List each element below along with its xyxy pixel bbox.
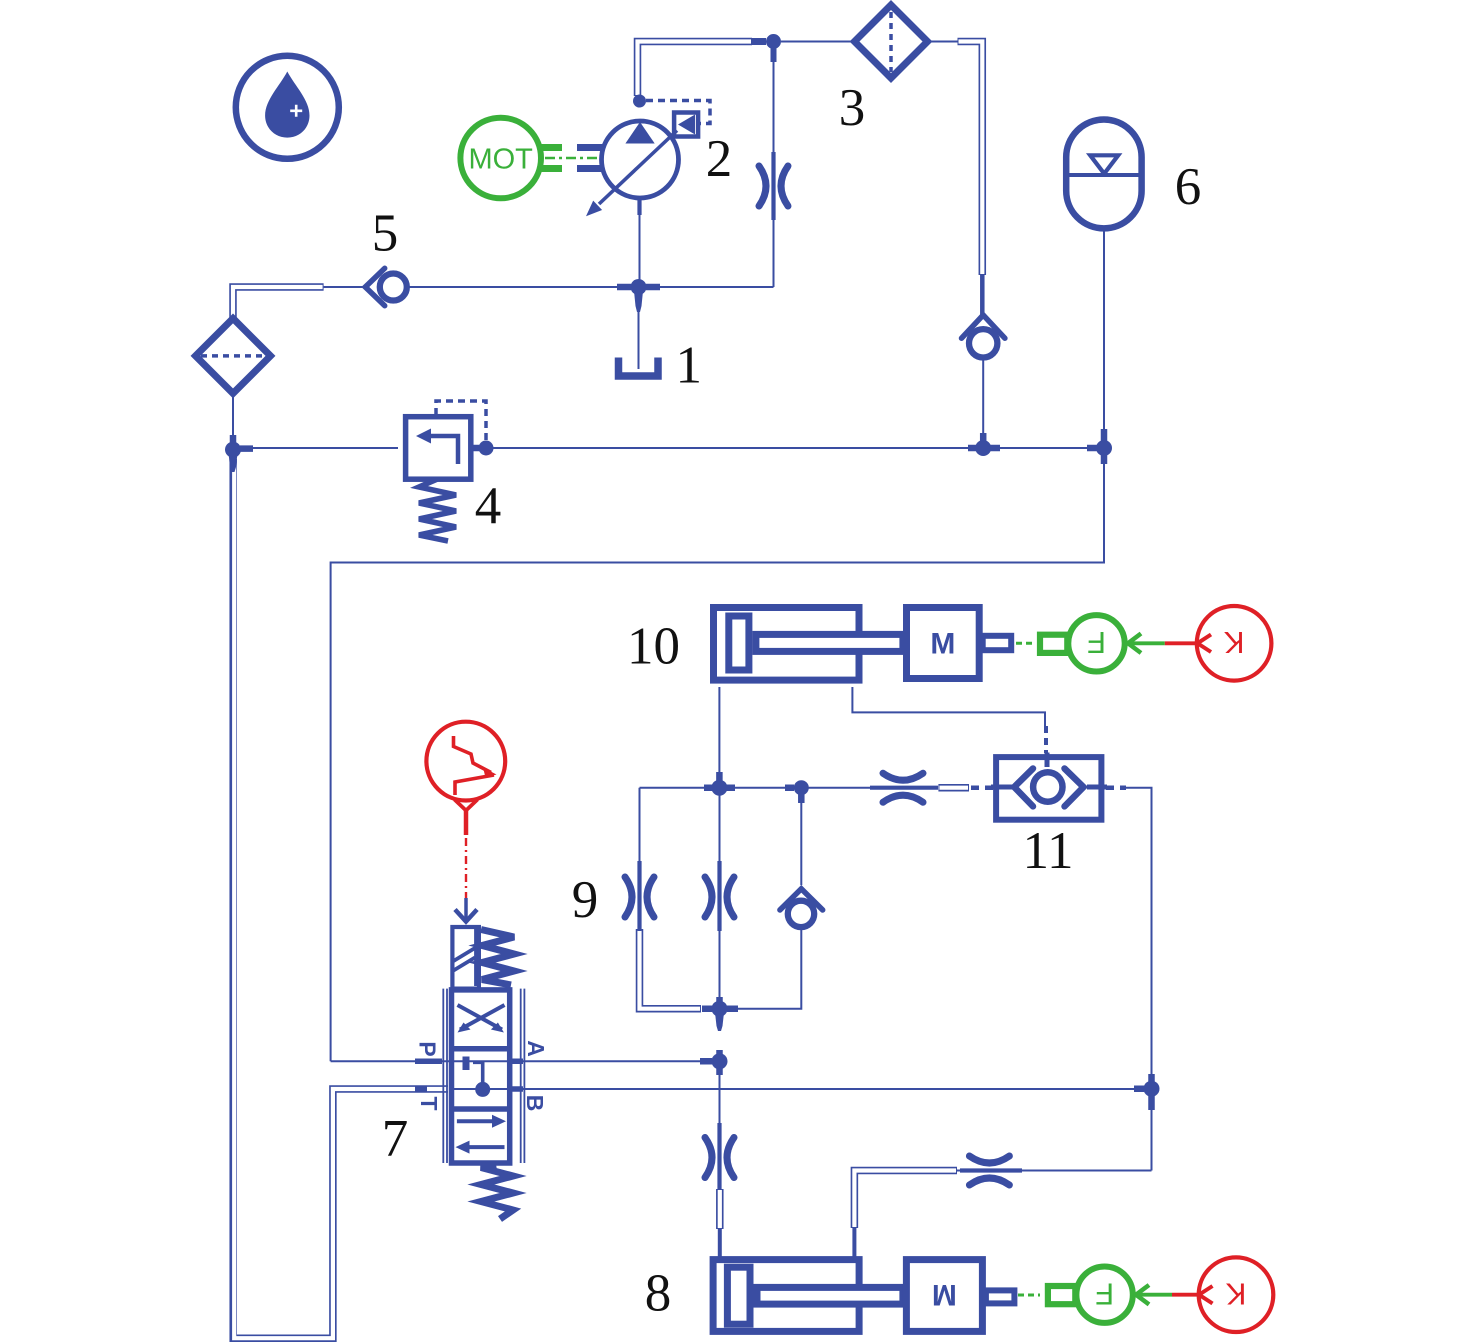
wire nodeX horizontal branch [640,787,802,789]
signal source K8 [1172,1257,1273,1332]
cell2 blocked port and drain [463,1057,470,1071]
svg-text:1: 1 [675,337,702,395]
mass M10 [907,608,1012,679]
orifice O4 (cylinder8 left line) [705,1123,734,1190]
valve 7 (proportional 4/3 directional valve) [415,898,550,1219]
svg-text:M: M [932,1278,957,1311]
orifice 9a [625,861,654,931]
svg-text:11: 11 [1022,822,1073,880]
svg-text:M: M [930,628,955,661]
wire nodeX vertical down through orifice9b to nodeY [719,788,721,1009]
wire filter3 right stub [929,41,958,43]
cell1 crossed arrows [458,1005,505,1030]
hose below orifice4 [716,1189,724,1229]
svg-text:2: 2 [706,130,733,188]
svg-text:MOT: MOT [468,144,533,176]
svg-text:B: B [522,1095,548,1112]
wire check3 down and left to nodeY [725,928,801,1009]
node Y (below orifices junction) [702,997,738,1031]
wire y448 left of relief [241,447,398,449]
svg-text:10: 10 [627,618,680,676]
wire junction1 to tank [638,310,640,369]
svg-text:5: 5 [372,205,399,263]
wire T-B line y=1089 [452,1088,1147,1090]
wire cylinder10 left port [718,687,720,780]
flank lines [443,989,524,1163]
wire y448 relief to junction4 [478,447,486,449]
node V (valve A-line junction) [700,1050,728,1075]
node Z (orifice3 branch junction) [785,780,809,803]
junction J2 (pump outlet node) [752,34,781,62]
wire thick drop to check2 [980,275,985,316]
wire nodeZ to orifice3 [801,787,938,789]
wire cylinder10 right port to pilot corner [852,687,1045,729]
svg-text:A: A [523,1040,549,1057]
svg-text:P: P [415,1041,441,1056]
wire junction6 down and across to left riser [331,455,1104,1061]
wire y448 junction4 to junction5 [493,447,976,449]
svg-text:4: 4 [475,477,502,535]
orifice O3 (to box11) [870,773,938,802]
cylinder 10 body [714,608,903,681]
pilot arrow into valve [464,898,468,919]
wire box11 right line down to orifice5 level [1124,788,1152,1171]
node W (valve B-line junction) [1134,1074,1160,1110]
wire pump bottom thick stub [637,199,641,215]
svg-text:K: K [1225,1276,1246,1311]
check valve 5 [365,268,407,305]
node X (cylinder10 left port junction) [704,772,735,796]
accumulator 6 [1066,120,1141,229]
svg-text:9: 9 [572,871,599,929]
cylinder 8 body [713,1260,903,1332]
svg-text:F: F [1095,1276,1114,1311]
svg-text:6: 6 [1175,158,1202,216]
relief valve 4 [406,401,486,541]
tank 1 [619,358,659,377]
wire suction line left segment [324,286,365,288]
junction J4 (relief outlet node) [472,441,494,456]
wire check2 down to junction5 [982,358,984,442]
svg-text:3: 3 [839,79,866,137]
motor U-MOT [460,118,603,199]
wire nodeV down through orifice to hose [719,1069,721,1189]
signal source K10 [1165,606,1272,681]
check valve CV2 (below filter3) [962,315,1005,357]
filter 2 (return filter) [196,318,271,442]
wire junction1 to riser [646,286,774,288]
wire accumulator drop [1103,228,1105,441]
HOSES (double lines) [233,42,982,1339]
hose pump outlet up and right [638,42,753,97]
wire pump bottom to junction1 [639,199,641,280]
wire riser x=773.5 up to top junction [773,49,775,287]
cell3 arrows [457,1119,497,1123]
fluid properties icon [236,56,339,159]
component 11 (pilot flow control) [971,726,1126,820]
port stubs [415,1061,523,1089]
solenoid box [452,927,479,989]
check valve CV3 (bypass of 9) [780,889,823,927]
force sensor F8 [1018,1267,1172,1323]
orifice 9b [705,861,734,931]
junction J3 (filter2 node) [225,435,253,472]
hose filter3 to right drop [958,42,983,276]
wire check5 to junction1 [407,286,617,288]
hose box11 left pipe [938,784,969,792]
wire hose to cylinder8 left port [718,1229,722,1258]
body [452,990,510,1163]
svg-text:8: 8 [645,1265,672,1323]
hose orifice9a elbow to nodeY [640,929,702,1009]
junction J5 (check2 node) [968,433,1000,456]
wire check3 vertical upper [800,793,802,885]
svg-text:F: F [1087,625,1106,660]
bottom spring [481,1165,513,1220]
filter 3 [855,5,928,78]
top spring (horizontal coils) [481,930,514,986]
wire P-A line y=1061.3 [331,1060,712,1062]
orifice O1 (pump bypass restrictor) [759,152,788,220]
wire orifice5 line [954,1170,1152,1172]
wire left branch down to orifice9a [639,788,641,930]
svg-text:7: 7 [382,1110,409,1168]
signal source R1 (piecewise linear) [426,722,505,898]
orifice O5 (cylinder8 right line) [960,1156,1022,1185]
hose tank return: valve T to bottom loop up to filter2 junction [233,459,448,1338]
wire cylinder8 right port riser [852,1228,856,1258]
mass M8 [906,1260,1014,1332]
hose suction left with corner to filter2 [233,287,324,318]
svg-text:K: K [1223,625,1244,660]
junction J6 (accumulator node) [1087,429,1112,464]
junction J1 (pump inlet node) [617,279,660,312]
wire y448 junction5 to junction6 [991,447,1097,449]
svg-text:T: T [416,1096,442,1110]
hose cylinder8 right elbow [854,1171,957,1229]
pump P2 (variable displacement) [586,95,710,217]
wire top junction to filter3 [781,41,855,43]
force sensor F10 [1016,615,1165,671]
